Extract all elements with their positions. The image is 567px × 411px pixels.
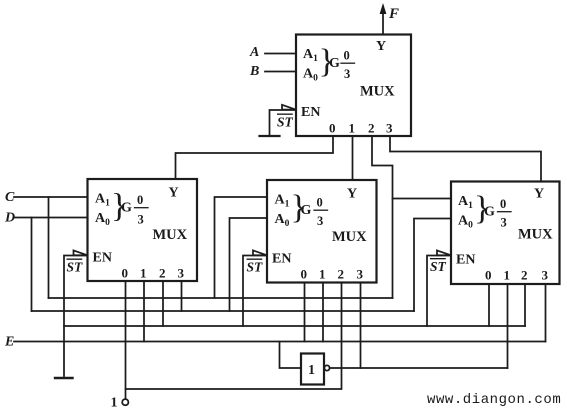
svg-text:1: 1: [111, 396, 118, 411]
wire right MUX pin1 from inverter: [507, 284, 509, 368]
svg-text:Y: Y: [534, 187, 544, 202]
wire top MUX pin1 from middle MUX Y: [352, 136, 354, 180]
svg-text:1: 1: [319, 267, 326, 282]
wire inverter output to right MUX pin1: [330, 367, 508, 369]
svg-text:EN: EN: [301, 105, 320, 120]
wire input E horizontal: [14, 341, 546, 343]
gate G1 inverter box: [301, 354, 324, 385]
svg-text:EN: EN: [93, 251, 112, 266]
wire input D to left MUX A0: [14, 217, 88, 219]
svg-text:MUX: MUX: [360, 84, 395, 100]
wire middle MUX pin2 to logic-1 bus: [126, 283, 342, 390]
svg-text:0: 0: [317, 196, 323, 210]
svg-text:G: G: [301, 203, 312, 218]
node logic-1 terminal circle: [122, 399, 128, 405]
svg-text:E: E: [4, 335, 14, 350]
wire middle MUX EN drop to ground bus: [243, 256, 267, 327]
polarity indicator right MUX EN: [437, 250, 451, 255]
wire ground bus horizontal: [64, 325, 525, 327]
ground left ST bar: [55, 377, 73, 379]
wire input C to left MUX A1: [14, 196, 88, 198]
wire left MUX pin3 to D bus: [181, 281, 183, 311]
wire right MUX A0 from D bus: [414, 219, 451, 312]
wire left MUX pin1 to E line: [143, 281, 145, 342]
wire right MUX EN drop to ground bus: [427, 256, 451, 327]
svg-text:A1: A1: [275, 193, 290, 210]
svg-text:EN: EN: [456, 253, 475, 268]
svg-text:EN: EN: [272, 252, 291, 267]
svg-text:MUX: MUX: [153, 227, 188, 243]
wire top MUX pin0 from left MUX Y: [176, 136, 334, 179]
svg-text:A: A: [249, 45, 259, 60]
ground top MUX ST bar: [260, 135, 280, 137]
svg-text:2: 2: [338, 267, 345, 282]
wire middle MUX pin1 to E line: [322, 283, 324, 342]
wire right MUX pin3 from E line: [545, 284, 547, 342]
svg-text:1: 1: [308, 363, 315, 378]
polarity indicator left MUX EN: [74, 250, 88, 255]
svg-text:G: G: [121, 201, 132, 216]
svg-text:ST: ST: [430, 259, 447, 274]
wire right MUX pin2 to ground bus: [524, 284, 526, 326]
wire branch to right MUX A1: [393, 198, 452, 200]
svg-text:A0: A0: [275, 212, 290, 229]
wire D drop vertical: [31, 218, 33, 312]
svg-text:0: 0: [485, 268, 492, 283]
wire middle MUX pin3 to inverter output: [360, 283, 362, 369]
svg-text:3: 3: [386, 121, 393, 136]
wire middle MUX A0 from D bus: [230, 218, 268, 311]
svg-text:2: 2: [368, 121, 375, 136]
wire right MUX pin0 to ground bus: [488, 284, 490, 326]
svg-text:2: 2: [521, 268, 528, 283]
node F arrowhead: [380, 3, 387, 14]
svg-text:F: F: [388, 6, 399, 22]
svg-text:0: 0: [344, 49, 350, 63]
wire input B to top MUX A0: [265, 71, 296, 73]
svg-text:Y: Y: [169, 186, 179, 201]
mux U1 top 4-to-1 MUX box outline: [296, 35, 411, 137]
svg-text:ST: ST: [247, 260, 264, 275]
svg-text:ST: ST: [67, 260, 84, 275]
svg-text:A0: A0: [303, 67, 318, 84]
svg-text:0: 0: [137, 193, 143, 207]
wire C bus horizontal: [49, 297, 393, 299]
wire left MUX pin2 to ground bus: [162, 281, 164, 326]
wire middle MUX pin0 to E line: [304, 283, 306, 342]
svg-text:Y: Y: [347, 187, 357, 202]
svg-text:3: 3: [317, 214, 323, 228]
svg-text:MUX: MUX: [332, 229, 367, 245]
svg-text:A1: A1: [458, 194, 473, 211]
svg-text:0: 0: [122, 266, 129, 281]
wire E drop to inverter input: [280, 342, 302, 369]
svg-text:3: 3: [178, 266, 185, 281]
mux U3 middle 4-to-1 MUX box outline: [267, 180, 377, 283]
svg-text:1: 1: [504, 268, 511, 283]
wire input A to top MUX A1: [265, 53, 296, 55]
svg-text:A0: A0: [95, 211, 110, 228]
wire C drop vertical: [48, 197, 50, 298]
polarity indicator middle MUX EN: [253, 250, 267, 255]
svg-text:0: 0: [500, 197, 506, 211]
svg-text:1: 1: [349, 121, 356, 136]
svg-text:0: 0: [329, 121, 336, 136]
svg-text:G: G: [329, 56, 340, 71]
wire top MUX EN to ground: [270, 110, 297, 135]
svg-text:A0: A0: [458, 214, 473, 231]
svg-text:3: 3: [501, 216, 507, 230]
svg-text:ST: ST: [277, 115, 294, 130]
wire F output from top MUX Y: [382, 8, 384, 35]
wire left MUX pin0 to logic-1 node: [125, 281, 127, 399]
svg-text:2: 2: [159, 266, 166, 281]
wire top MUX pin3 from right MUX Y: [390, 136, 541, 182]
wire left MUX EN to ground vertical: [64, 256, 88, 377]
svg-text:www.diangon.com: www.diangon.com: [427, 392, 561, 408]
svg-text:1: 1: [140, 266, 147, 281]
svg-text:A1: A1: [95, 192, 110, 209]
svg-text:3: 3: [344, 67, 350, 81]
wire middle MUX A1 from C bus: [215, 197, 268, 298]
svg-text:A1: A1: [303, 47, 318, 64]
svg-text:MUX: MUX: [518, 227, 553, 243]
wire top MUX pin2 jog down to C-net vertical: [372, 136, 393, 298]
svg-text:C: C: [5, 190, 15, 205]
svg-text:3: 3: [138, 213, 144, 227]
svg-text:Y: Y: [376, 39, 386, 54]
svg-text:B: B: [249, 64, 259, 79]
svg-text:3: 3: [357, 267, 364, 282]
svg-text:D: D: [4, 211, 15, 226]
svg-text:0: 0: [301, 267, 308, 282]
gate G1 inverter output bubble: [324, 365, 329, 370]
svg-text:3: 3: [542, 268, 549, 283]
polarity indicator top MUX EN: [282, 105, 296, 110]
svg-text:G: G: [484, 205, 495, 220]
mux U4 right 4-to-1 MUX box outline: [451, 182, 560, 285]
wire D bus horizontal: [32, 310, 415, 312]
mux U2 left 4-to-1 MUX box outline: [88, 179, 198, 281]
